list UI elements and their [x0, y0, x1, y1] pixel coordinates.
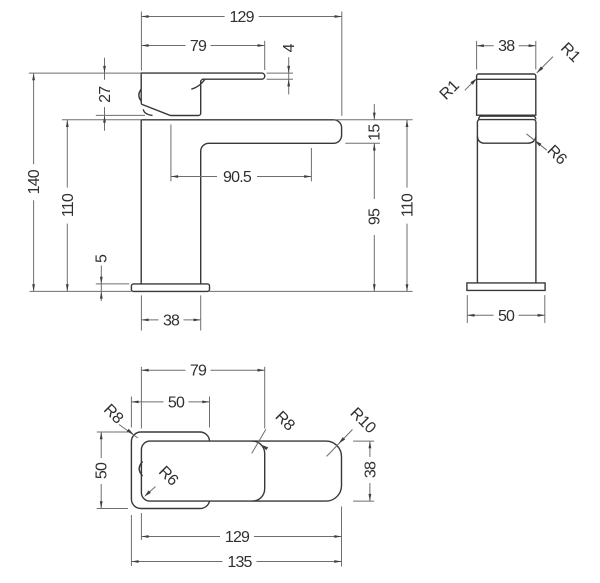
extension line 90.5 right — [310, 148, 312, 181]
radius label R1 left — [437, 77, 477, 103]
dimension 27 front — [97, 58, 114, 131]
extension line 50 side left — [466, 295, 468, 323]
radius label R10 plan — [327, 405, 379, 457]
svg-text:129: 129 — [229, 9, 254, 26]
extension line 79 right front — [264, 41, 266, 70]
dimension 50 side — [467, 308, 545, 325]
dimension 4 front — [281, 43, 298, 94]
extension line 50 side right — [544, 295, 546, 323]
dimension 110 front left — [60, 120, 77, 292]
extension line 38 plan bottom — [353, 500, 374, 502]
extension line 50 plan left — [130, 397, 132, 428]
svg-text:90.5: 90.5 — [223, 169, 252, 186]
side view base plate — [467, 283, 545, 291]
svg-text:110: 110 — [400, 193, 417, 217]
extension line 38 side right — [535, 41, 537, 70]
radius label R6 plan — [144, 463, 181, 496]
extension line 90.5 left — [170, 125, 172, 182]
dimension 50 plan left — [94, 432, 111, 509]
baseline extension left — [30, 290, 132, 292]
svg-text:50: 50 — [94, 462, 111, 479]
dimension 135 plan — [131, 554, 341, 571]
extension line 135 plan left — [130, 515, 132, 566]
extension line 50 left bottom — [97, 508, 128, 510]
radius label R1 right — [537, 40, 584, 73]
svg-text:135: 135 — [227, 554, 252, 571]
plan view spout outline — [141, 441, 341, 501]
dimension 129 plan — [141, 529, 341, 546]
dimension 38 side — [477, 38, 536, 55]
extension line 38 right bottom — [200, 295, 202, 330]
extension line lever top left — [29, 72, 141, 74]
radius label R8 plan middle — [252, 408, 298, 453]
front view body and spout outline — [141, 120, 341, 284]
extension line 38 left bottom — [140, 295, 142, 330]
front view lever handle outline — [141, 73, 265, 115]
baseline extension right — [210, 290, 413, 292]
extension line 129 plan left — [140, 513, 142, 540]
svg-text:140: 140 — [26, 169, 43, 194]
plan view handle butt arc — [139, 462, 142, 477]
svg-text:4: 4 — [281, 43, 298, 52]
extension line body top right — [334, 119, 413, 121]
plan view base plate outline — [131, 432, 209, 509]
svg-text:129: 129 — [225, 529, 250, 546]
svg-text:5: 5 — [94, 254, 111, 263]
extension line 129-135 plan right — [341, 507, 343, 567]
side view spout bottom curve — [477, 136, 536, 143]
svg-text:50: 50 — [168, 394, 185, 411]
svg-text:79: 79 — [190, 38, 207, 55]
svg-text:38: 38 — [163, 312, 180, 329]
dimension 38 front — [141, 312, 200, 329]
front view lever underside fillet curve — [191, 79, 205, 89]
extension line 129 left — [140, 12, 142, 71]
svg-text:27: 27 — [97, 86, 114, 103]
front view base plate — [131, 284, 209, 292]
extension line 50 plan right — [209, 397, 211, 428]
extension line 38 side left — [476, 41, 478, 70]
extension line 79 plan right — [264, 367, 266, 429]
side view handle block — [477, 74, 536, 115]
dimension 90.5 front — [171, 169, 312, 186]
svg-text:95: 95 — [367, 208, 384, 225]
dimension 5 front — [94, 254, 111, 301]
svg-text:38: 38 — [498, 38, 515, 55]
extension line 50 left top — [97, 431, 128, 433]
extension line 4 top — [267, 72, 293, 74]
dimension 79 plan — [141, 363, 264, 380]
svg-text:50: 50 — [498, 308, 515, 325]
dimension 38 plan — [362, 441, 379, 501]
svg-text:79: 79 — [190, 363, 207, 380]
dimension 50 plan — [131, 394, 209, 411]
dimension 79 front — [141, 38, 264, 55]
plan view lever end outline — [252, 441, 264, 501]
svg-text:38: 38 — [362, 461, 379, 478]
dimension 110 front right — [400, 120, 417, 292]
extension line body top left — [62, 119, 141, 121]
side view neck ring — [478, 116, 536, 119]
radius label R8 plan left — [100, 401, 138, 438]
front view handle left face arc — [139, 89, 142, 101]
dimension 140 front — [26, 73, 43, 291]
extension line spout bottom right — [345, 142, 380, 144]
extension line 79 plan left — [140, 367, 142, 429]
svg-text:15: 15 — [367, 124, 384, 141]
side view lever parting line — [477, 78, 536, 80]
extension line 4 bottom — [267, 78, 293, 80]
radius label R6 side — [526, 134, 570, 169]
dimension 129 front — [141, 9, 341, 26]
front view handle skirt fillet — [143, 109, 152, 115]
dimension 95 front — [367, 143, 384, 291]
side view body — [477, 120, 536, 283]
svg-text:110: 110 — [60, 193, 77, 217]
extension line handle bottom — [96, 114, 145, 116]
extension line 129 right — [341, 12, 343, 116]
extension line base top left — [96, 283, 130, 285]
extension line 38 plan top — [353, 440, 374, 442]
dimension 15 front — [367, 104, 384, 141]
